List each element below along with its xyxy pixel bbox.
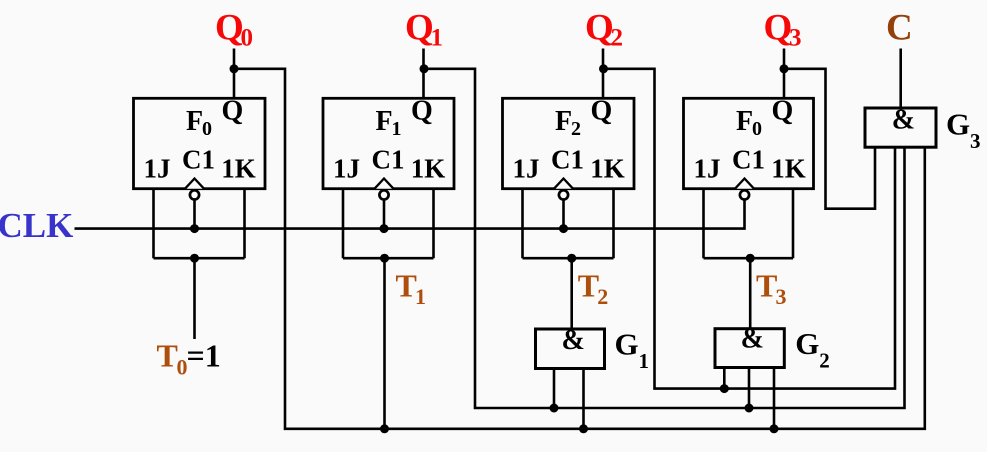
gate label G3: [946, 107, 981, 154]
svg-text:&: &: [562, 325, 585, 356]
svg-text:T: T: [756, 268, 777, 304]
svg-text:1J: 1J: [333, 153, 360, 183]
svg-text:C1: C1: [551, 145, 584, 175]
wire clock stub U3: [562, 200, 565, 229]
wire J-K tie bar U3: [523, 257, 614, 260]
svg-text:G: G: [946, 107, 970, 142]
junction CLK at U3: [559, 224, 568, 233]
svg-text:C: C: [886, 8, 913, 49]
wire Q2 feedback (to upper bus): [603, 69, 895, 389]
junction tie U4: [746, 254, 755, 263]
label T0=1: [157, 338, 221, 380]
AND gate G2: [715, 324, 784, 368]
svg-text:1: 1: [392, 118, 402, 140]
wire J-K tie bar U1: [154, 257, 245, 260]
svg-text:G: G: [615, 326, 639, 361]
junction T1 on Q0 bus: [380, 424, 389, 433]
svg-text:1K: 1K: [771, 153, 806, 183]
svg-text:=1: =1: [187, 338, 221, 374]
junction Q0 node: [230, 64, 239, 73]
junction CLK at U2: [380, 224, 389, 233]
svg-text:Q: Q: [411, 96, 433, 127]
node label T1: [396, 268, 427, 310]
svg-text:Q: Q: [222, 96, 244, 127]
node label Q3: [764, 8, 802, 52]
junction Q1 node: [420, 64, 429, 73]
svg-text:3: 3: [789, 25, 802, 52]
wire 1J pin drop U2: [342, 189, 345, 259]
junction tie U1: [190, 254, 199, 263]
junction G2b on Q1 bus: [745, 404, 754, 413]
JK flip-flop U1 (F0): [134, 96, 266, 200]
wire Q1 feedback (to middle bus): [424, 69, 905, 408]
wire T2 drop (tie U3 to G1 output): [570, 258, 573, 330]
junction CLK at U1: [190, 224, 199, 233]
svg-text:1: 1: [639, 349, 650, 373]
wire J-K tie bar U4: [704, 257, 794, 260]
svg-text:1K: 1K: [590, 153, 625, 183]
svg-text:&: &: [741, 324, 764, 355]
AND gate G1: [536, 325, 605, 368]
wire G1 input b (from Q0 bus): [582, 368, 585, 429]
wire T1 drop (tie U2 to Q0 bus): [383, 258, 386, 429]
wire Q3 output stub: [783, 49, 786, 99]
svg-text:Q: Q: [772, 96, 794, 127]
wire 1J pin drop U3: [521, 189, 524, 259]
svg-text:Q: Q: [591, 96, 613, 127]
wire 1K pin drop U2: [432, 189, 435, 259]
wire Q2 output stub: [602, 49, 605, 99]
wire 1J pin drop U1: [152, 189, 155, 259]
svg-text:G: G: [795, 326, 819, 361]
svg-text:1K: 1K: [221, 153, 256, 183]
wire C output of G3: [899, 49, 902, 109]
svg-text:3: 3: [970, 129, 981, 153]
wire 1K pin drop U4: [792, 189, 795, 259]
wire G2 input b (from Q1 bus): [748, 367, 751, 408]
svg-text:0: 0: [752, 118, 762, 140]
wire Q0 feedback (to bottom bus): [234, 69, 925, 429]
svg-text:2: 2: [571, 118, 581, 140]
wire clock stub U1: [193, 200, 196, 229]
svg-text:1K: 1K: [411, 153, 446, 183]
svg-text:T: T: [157, 338, 178, 374]
junction G2a on Q2 bus: [720, 384, 729, 393]
gate label G1: [615, 326, 650, 373]
node label Q2: [585, 8, 623, 52]
gate label G2: [795, 326, 830, 373]
svg-text:0: 0: [241, 25, 254, 52]
wire 1K pin drop U3: [612, 189, 615, 259]
wire 1K pin drop U1: [243, 189, 246, 259]
svg-text:Q: Q: [215, 8, 244, 49]
junction Q2 node: [599, 64, 608, 73]
wire Q1 output stub: [422, 49, 425, 99]
wire G2 input a (from Q2 bus): [723, 367, 726, 389]
wire T3 drop (tie U4 to G2 output): [749, 258, 752, 329]
node label Q1: [405, 8, 443, 52]
junction Q3 node: [780, 64, 789, 73]
svg-text:1: 1: [415, 284, 426, 309]
node label T3: [756, 268, 787, 310]
svg-text:3: 3: [776, 284, 787, 309]
svg-text:Q: Q: [405, 8, 434, 49]
svg-text:&: &: [892, 104, 915, 135]
svg-text:T: T: [578, 268, 599, 304]
junction G2c on Q0 bus: [770, 424, 779, 433]
svg-text:1J: 1J: [694, 153, 721, 183]
svg-text:C1: C1: [372, 145, 405, 175]
svg-text:Q: Q: [585, 8, 614, 49]
node label Q0: [215, 8, 253, 52]
svg-text:F: F: [555, 106, 572, 137]
JK flip-flop U2 (F1): [323, 96, 454, 200]
junction G1a on Q1 bus: [550, 404, 559, 413]
svg-text:F: F: [376, 106, 393, 137]
svg-text:T: T: [396, 268, 417, 304]
junction G1b on Q0 bus: [579, 424, 588, 433]
wire clock stub U2: [383, 200, 386, 229]
svg-text:0: 0: [202, 118, 212, 140]
junction tie U2: [380, 254, 389, 263]
svg-text:F: F: [186, 106, 203, 137]
junction tie U3: [567, 254, 576, 263]
svg-text:1: 1: [431, 25, 444, 52]
wire G1 input a (from Q1 bus): [553, 368, 556, 408]
wire J-K tie bar U2: [343, 257, 434, 260]
AND gate G3: [865, 104, 936, 147]
wire G2 input c (from Q0 bus): [773, 367, 776, 429]
wire CLK trunk: [75, 200, 745, 229]
svg-text:C1: C1: [182, 145, 215, 175]
svg-text:2: 2: [611, 25, 624, 52]
JK flip-flop U3 (F2): [503, 96, 635, 200]
svg-text:F: F: [736, 106, 753, 137]
wire Q3 feedback to G3: [784, 69, 875, 209]
JK flip-flop U4 (F0): [684, 96, 814, 200]
node label T2: [578, 268, 609, 310]
wire T0 stub: [193, 258, 196, 339]
svg-text:1J: 1J: [513, 153, 540, 183]
svg-text:C1: C1: [732, 145, 765, 175]
svg-text:1J: 1J: [144, 153, 171, 183]
svg-text:2: 2: [819, 348, 830, 372]
svg-text:Q: Q: [764, 8, 793, 49]
wire 1J pin drop U4: [702, 189, 705, 259]
svg-text:CLK: CLK: [0, 206, 73, 245]
svg-text:2: 2: [597, 284, 608, 309]
wire Q0 output stub: [233, 49, 236, 99]
